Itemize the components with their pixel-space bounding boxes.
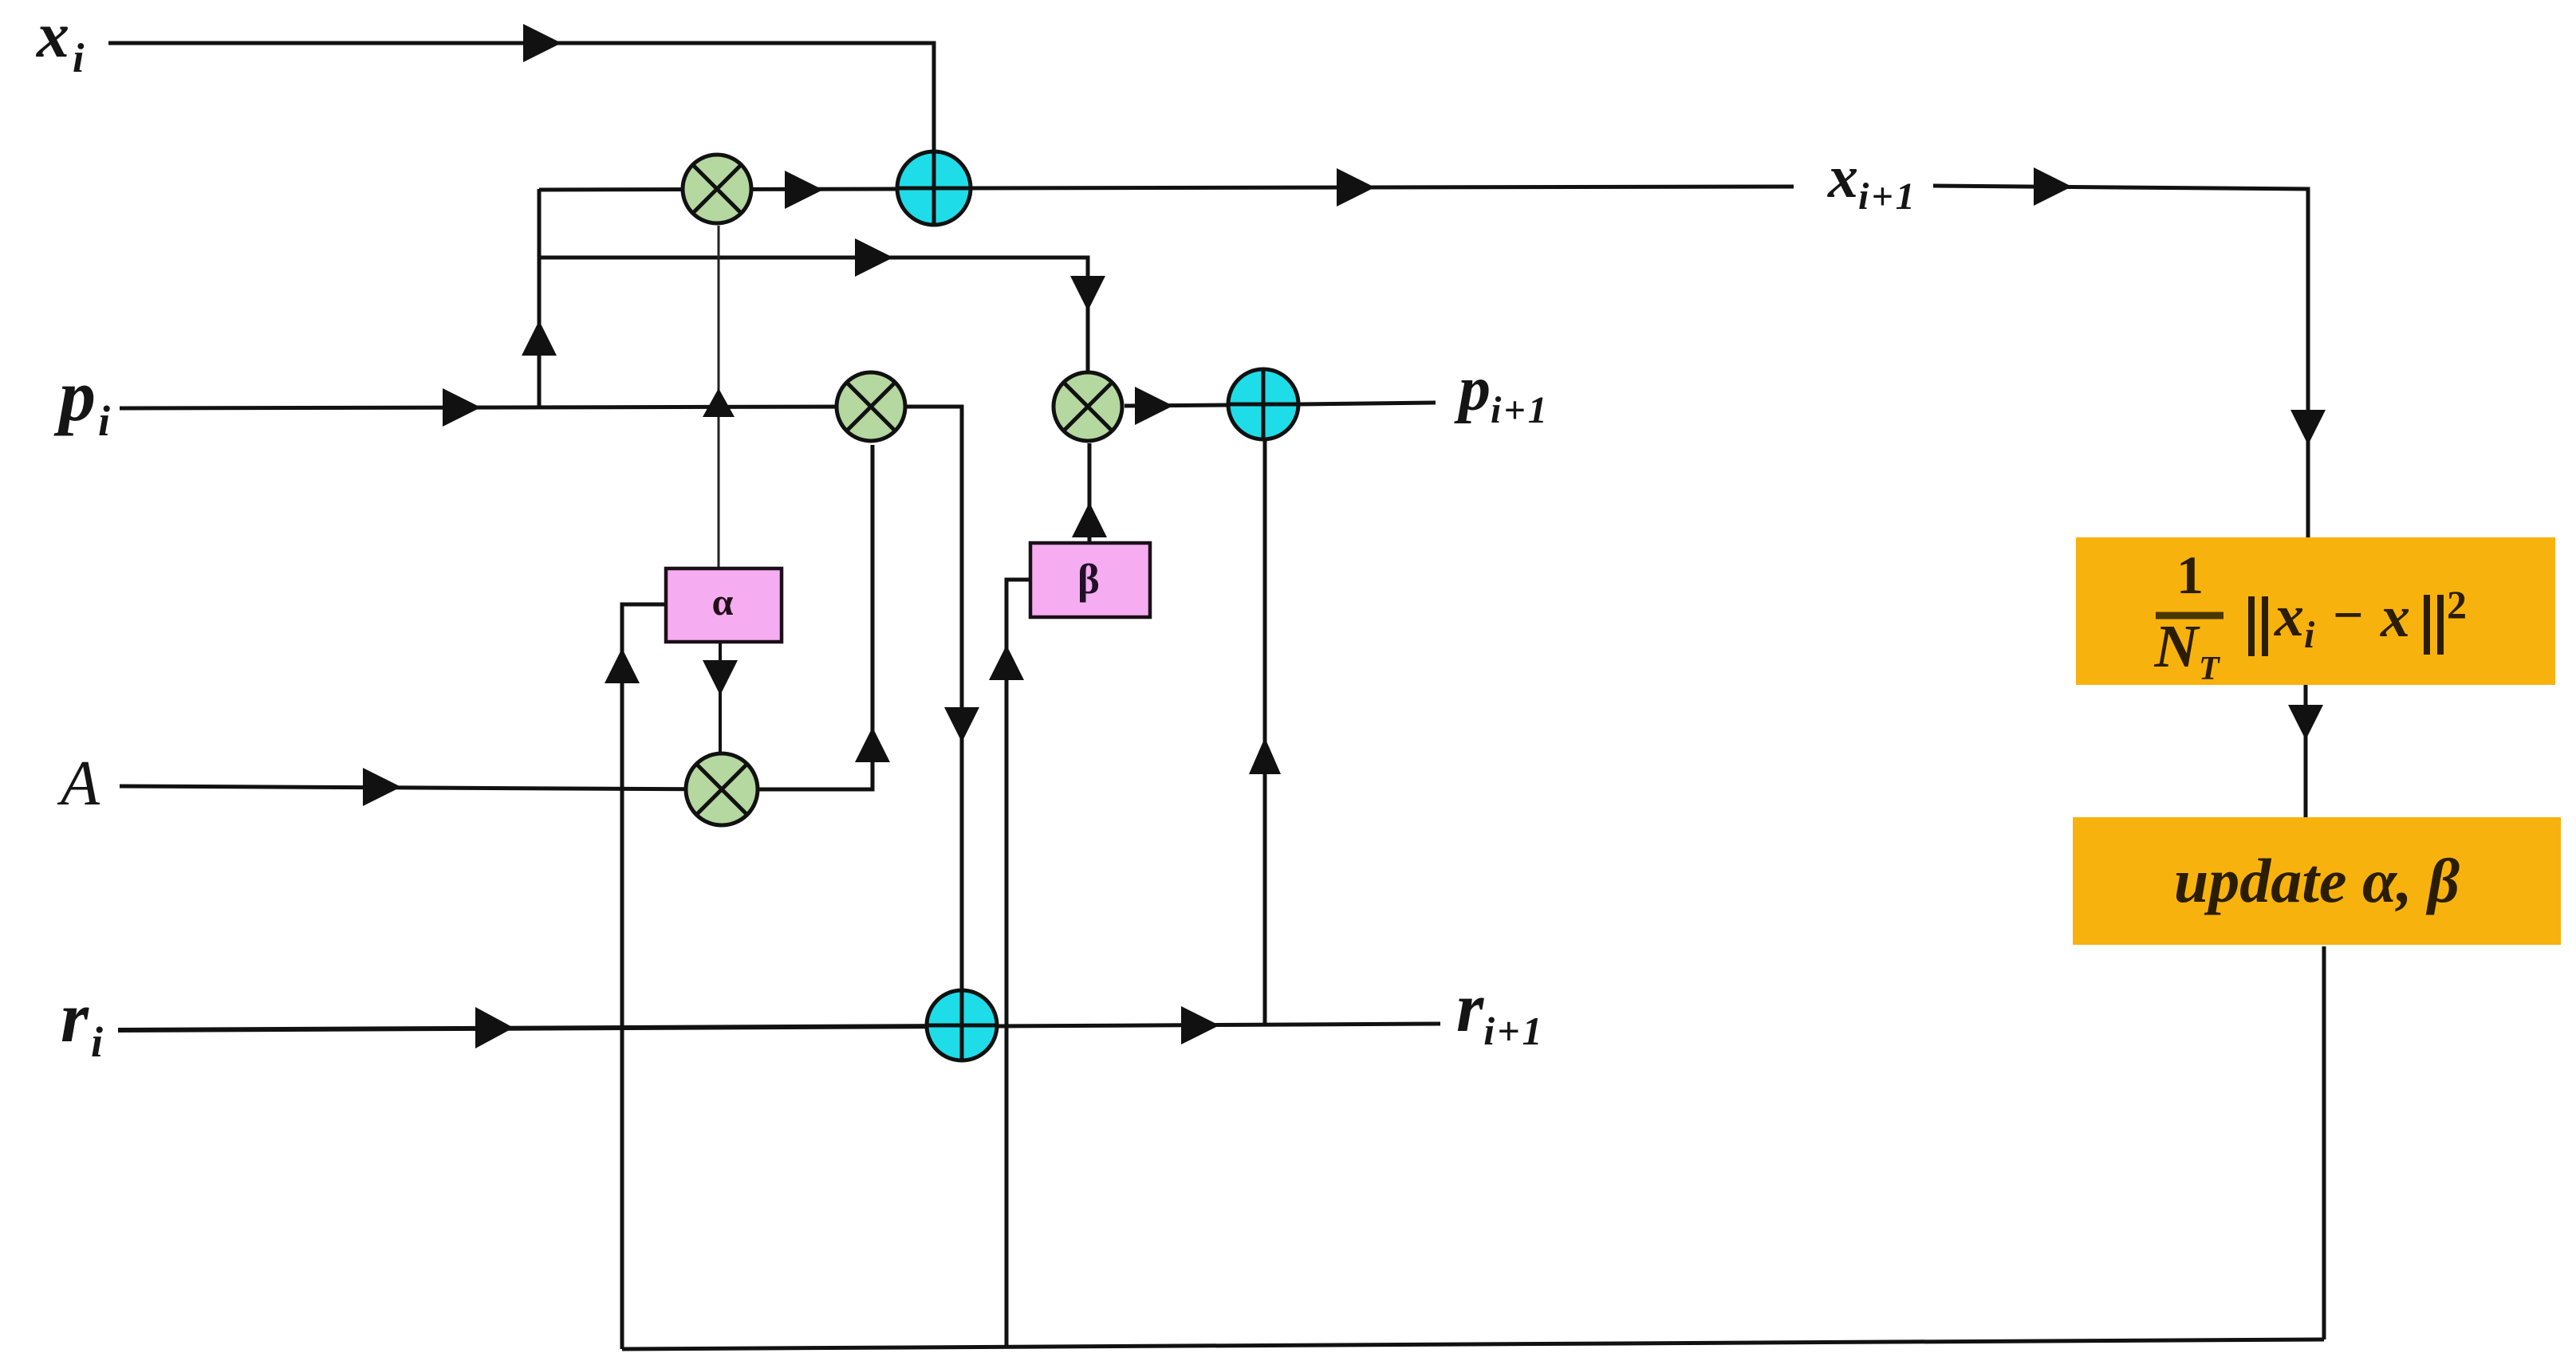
arrowhead up toward beta [989, 645, 1024, 680]
svg-text:A: A [57, 749, 100, 819]
arrowhead down into box1 [2290, 410, 2326, 445]
adder A2 [1228, 369, 1298, 439]
wire vertical branch from p_i up to w1/w2 node [538, 189, 542, 408]
wire feedback up into alpha box elbow [622, 604, 666, 1349]
multiplier M3 [686, 753, 758, 825]
svg-text:x: x [2380, 584, 2410, 650]
wire A2 output to p_i+1 label [1298, 403, 1436, 404]
svg-text:i: i [2304, 614, 2315, 656]
wire alpha spine from alpha box up through p_i line to M1 [718, 226, 720, 568]
arrowhead into A2 [1135, 387, 1173, 425]
arrowhead down into M3 [703, 660, 738, 695]
arrowhead up on branch [522, 321, 557, 356]
arrowhead on A line [363, 768, 401, 806]
multiplier M1 [683, 155, 751, 223]
multiplier M4 [1054, 372, 1122, 441]
arrowhead on x_i line [523, 24, 561, 62]
arrowhead up toward A2 [1249, 738, 1281, 774]
wire p_i input line to multiplier M2 [120, 407, 871, 408]
wire w1 from node elbow to multiplier M1 to adder A1 [539, 189, 898, 190]
wire below box2 down to bottom feedback line [2322, 946, 2326, 1339]
arrowhead on r_i line [475, 1007, 514, 1048]
svg-text:β: β [1077, 557, 1100, 603]
wire beta box up to multiplier M4 [1088, 443, 1092, 543]
adder A3 [927, 990, 997, 1060]
arrowhead down into box2 [2288, 705, 2323, 740]
wire M2 output right then down into adder A3 [906, 407, 962, 991]
arrowhead up into M4 [1072, 502, 1107, 537]
arrowhead after x_i+1 label [2034, 167, 2072, 206]
wire A2 bottom input from r line junction [1263, 441, 1267, 1026]
adder A1 [897, 151, 971, 225]
svg-text:2: 2 [2447, 582, 2467, 627]
wire feedback up into beta box elbow [1006, 580, 1030, 1347]
wire x_i+1 after label with elbow down to box1 [1933, 186, 2308, 538]
svg-text:α: α [712, 581, 734, 623]
wire between box1 and box2 [2304, 684, 2308, 818]
wire x_i+1 output from A1 to label [971, 187, 1794, 188]
arrowhead after A3 [1181, 1006, 1219, 1044]
arrowhead M1 to A1 [785, 171, 823, 209]
box2 update alpha beta [2073, 817, 2561, 945]
arrowhead up toward alpha [605, 648, 640, 683]
wire x_i input line with elbow down to adder A1 [108, 43, 934, 153]
box1 error metric 1/NT ||x_i - x||^2 [2076, 537, 2555, 687]
arrowhead on w2 down into M4 [1070, 276, 1105, 311]
wire A input line to multiplier M3 [120, 786, 722, 789]
alpha box [666, 568, 782, 642]
wire alpha box down to multiplier M3 [719, 642, 722, 755]
wire r_i input line to adder A3 [118, 1026, 962, 1030]
svg-text:N: N [2154, 613, 2201, 680]
multiplier M2 [837, 372, 905, 441]
arrowhead up into M1 spine [703, 388, 735, 417]
svg-text:−: − [2333, 584, 2364, 645]
wire w2 second branch to multiplier M4 [539, 258, 1088, 372]
beta box [1030, 543, 1150, 617]
arrowhead on p_i line [443, 388, 481, 427]
svg-text:x: x [2274, 584, 2304, 649]
wire M3 output right then up into M2 [758, 445, 872, 789]
wire bottom feedback line [622, 1339, 2324, 1349]
svg-text:1: 1 [2176, 545, 2204, 605]
arrowhead down toward A3 [944, 707, 979, 742]
svg-text:T: T [2199, 651, 2221, 687]
arrowhead before x_i+1 label [1337, 168, 1375, 207]
arrowhead up into M2 [855, 727, 890, 762]
arrowhead on w2 horizontal [855, 238, 893, 277]
wire A3 output to r_i+1 label [997, 1024, 1440, 1026]
wire M4 output to adder A2 [1125, 405, 1228, 406]
svg-text:update α, β: update α, β [2174, 846, 2460, 915]
